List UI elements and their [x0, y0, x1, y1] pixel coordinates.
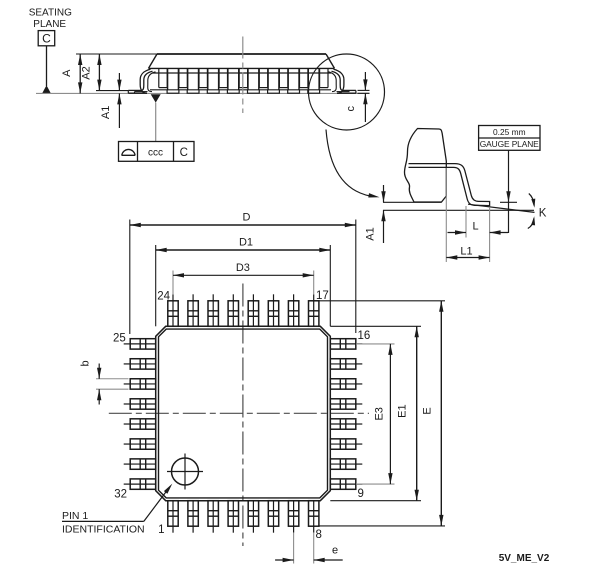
svg-text:1: 1	[158, 524, 164, 536]
gauge plane label box	[479, 126, 540, 151]
dimension e extension lines	[294, 533, 314, 564]
dimension D1 extension lines	[156, 245, 331, 326]
datum C filled triangle	[42, 85, 51, 94]
dimension A1 detail	[365, 185, 386, 243]
right gull-wing lead	[332, 69, 356, 93]
pin 16 right	[330, 339, 362, 349]
K angle foot line	[468, 204, 535, 212]
dimension c extension lines	[358, 90, 370, 93]
package body outline inner	[159, 329, 328, 498]
pin 10 right	[330, 459, 362, 469]
pin 20 top	[248, 294, 258, 326]
svg-text:0.25 mm: 0.25 mm	[493, 127, 526, 137]
svg-text:A1: A1	[100, 106, 112, 119]
pin number 8	[316, 529, 322, 541]
dimension c	[345, 72, 368, 122]
pin 18 top	[288, 294, 298, 326]
detail gauge plane line	[383, 201, 442, 203]
far-side leads row	[159, 68, 328, 87]
svg-text:D1: D1	[239, 237, 253, 249]
lead feet tabs	[167, 90, 320, 93]
pin number 9	[358, 488, 364, 500]
pin 8 bottom	[309, 501, 319, 533]
pin 24 top	[168, 294, 178, 326]
dimension L1	[446, 246, 489, 260]
ccc leader line	[155, 103, 157, 142]
dimension D3	[173, 262, 314, 277]
pin 21 top	[228, 294, 238, 326]
svg-text:ccc: ccc	[148, 148, 163, 159]
left gull-wing lead	[128, 69, 152, 93]
detail seating plane line	[383, 209, 534, 211]
pin 14 right	[330, 379, 362, 389]
pin number 24	[157, 290, 170, 302]
comb bottom line	[150, 89, 331, 91]
dimension D extension lines	[130, 220, 356, 335]
detail leader arc	[326, 130, 380, 198]
package body outline outer	[156, 326, 331, 500]
svg-text:C: C	[42, 32, 51, 46]
dimension D1	[156, 237, 331, 253]
dimension E extension lines	[309, 301, 445, 526]
pin 13 right	[330, 399, 362, 409]
pin 25 left	[124, 339, 156, 349]
svg-text:C: C	[180, 147, 188, 159]
svg-text:D3: D3	[236, 262, 250, 274]
dimension b extension lines	[96, 379, 129, 389]
svg-text:25: 25	[113, 333, 126, 345]
svg-text:IDENTIFICATION: IDENTIFICATION	[62, 524, 145, 536]
svg-text:b: b	[80, 360, 92, 366]
dimension E1 extension lines	[330, 326, 421, 500]
near-side leads comb	[168, 68, 320, 89]
pin 30 left	[124, 439, 156, 449]
dimension E3	[373, 344, 392, 484]
svg-text:5V_ME_V2: 5V_ME_V2	[499, 553, 550, 564]
pin number 1	[158, 524, 164, 536]
left far gull-wing lead	[135, 72, 156, 93]
gauge plane leader	[500, 150, 517, 233]
dimension L1 extension line	[445, 168, 447, 262]
svg-text:A2: A2	[81, 66, 93, 79]
svg-text:A: A	[61, 69, 73, 77]
bottom view vertical centerline	[242, 284, 244, 547]
pin 3 bottom	[208, 501, 218, 533]
pin 17 top	[309, 294, 319, 326]
pin 31 left	[124, 459, 156, 469]
ccc datum triangle	[151, 94, 161, 102]
pin 23 top	[188, 294, 198, 326]
pin 9 right	[330, 479, 362, 489]
svg-text:PIN 1: PIN 1	[62, 510, 88, 522]
detail lead	[409, 164, 490, 206]
pin 7 bottom	[288, 501, 298, 533]
svg-text:24: 24	[157, 290, 170, 302]
detail circle	[309, 54, 385, 130]
svg-text:L: L	[472, 221, 478, 233]
svg-text:GAUGE PLANE: GAUGE PLANE	[480, 139, 539, 149]
drawing reference 5V_ME_V2	[499, 553, 550, 564]
pin number 17	[316, 290, 329, 302]
pin 5 bottom	[248, 501, 258, 533]
dimension A2	[81, 54, 102, 91]
svg-text:17: 17	[316, 290, 329, 302]
dimension L	[448, 221, 509, 235]
pin 12 right	[330, 419, 362, 429]
pin 26 left	[124, 359, 156, 369]
pin 11 right	[330, 439, 362, 449]
svg-text:c: c	[345, 105, 357, 111]
bottom view horizontal centerline	[109, 412, 369, 414]
svg-text:e: e	[332, 545, 338, 557]
detail package body	[404, 129, 446, 203]
svg-text:16: 16	[358, 330, 371, 342]
pin 27 left	[124, 379, 156, 389]
dimension A extension line	[76, 53, 157, 55]
svg-text:SEATING: SEATING	[29, 8, 72, 19]
dimension D	[130, 212, 356, 228]
pin 29 left	[124, 419, 156, 429]
dimension E1	[396, 326, 419, 500]
dimension K arcs	[528, 194, 547, 229]
pin 32 left	[124, 479, 156, 489]
pin 19 top	[268, 294, 278, 326]
svg-text:9: 9	[358, 488, 364, 500]
dimension A	[61, 54, 83, 93]
svg-text:E: E	[421, 407, 433, 414]
seating plane line	[36, 92, 370, 94]
dimension L extension lines	[466, 206, 490, 262]
dimension e	[275, 545, 343, 563]
pin 1 identification leader	[62, 484, 172, 522]
dimension D3 extension lines	[173, 271, 314, 295]
pin 1 identification label	[62, 510, 145, 536]
svg-text:32: 32	[114, 489, 127, 501]
pin 2 bottom	[188, 501, 198, 533]
datum C leader line	[46, 46, 48, 86]
svg-text:E1: E1	[396, 404, 408, 417]
pin 28 left	[124, 399, 156, 409]
right far gull-wing lead	[329, 72, 350, 92]
svg-text:E3: E3	[373, 407, 385, 420]
pin 6 bottom	[268, 501, 278, 533]
pin number 16	[358, 330, 371, 342]
package body side view top	[149, 54, 335, 73]
pin number 32	[114, 489, 127, 501]
seating plane text	[29, 8, 72, 31]
svg-text:K: K	[539, 208, 547, 220]
dimension b	[80, 360, 102, 404]
svg-text:8: 8	[316, 529, 322, 541]
pin 1 identification circle	[167, 454, 203, 490]
side view centerline	[242, 37, 244, 114]
pin 15 right	[330, 359, 362, 369]
pin number 25	[113, 333, 126, 345]
ccc feature control frame	[119, 142, 195, 162]
dimension A1 side view	[100, 73, 122, 128]
dimension E3 extension lines	[356, 344, 395, 484]
datum C symbol box	[38, 31, 55, 46]
svg-text:L1: L1	[460, 246, 472, 258]
svg-text:D: D	[243, 212, 251, 224]
pin 1 bottom	[168, 501, 178, 533]
svg-text:A1: A1	[365, 227, 377, 240]
pin 4 bottom	[228, 501, 238, 533]
svg-text:PLANE: PLANE	[33, 19, 66, 30]
pin 22 top	[208, 294, 218, 326]
dimension A1 extension line	[96, 90, 128, 92]
dimension E	[421, 301, 443, 526]
